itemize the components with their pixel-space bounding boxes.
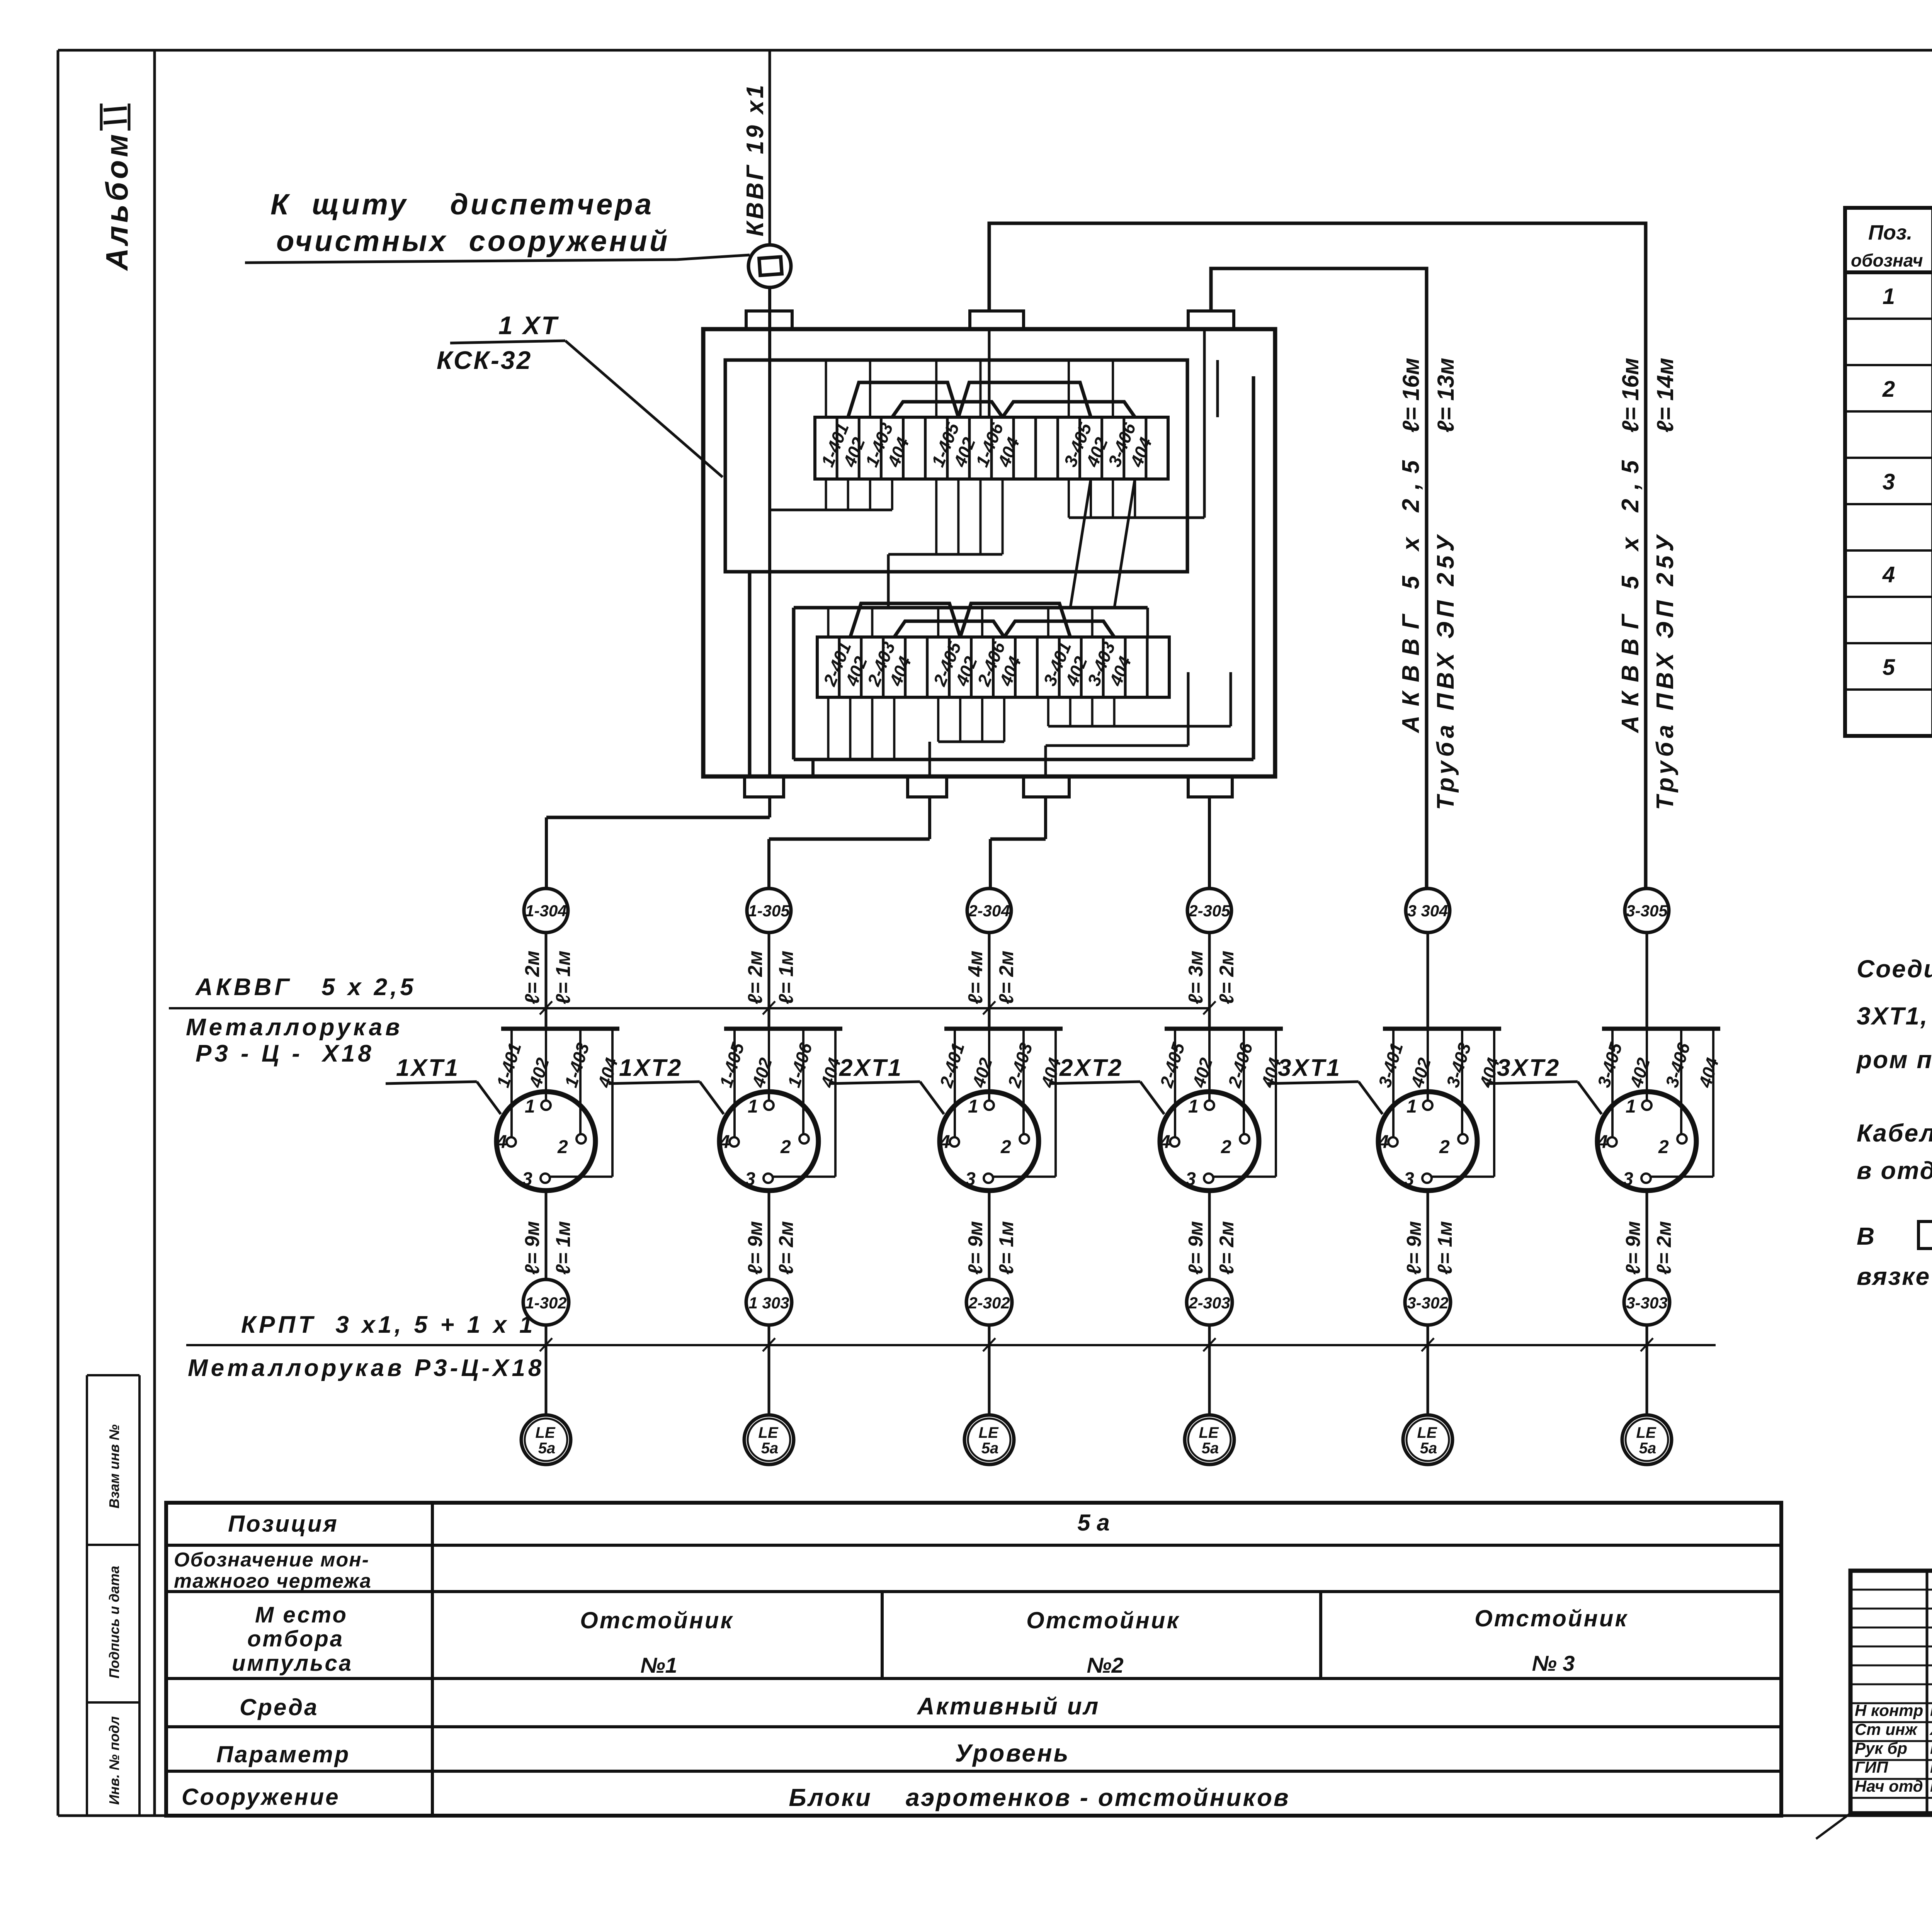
svg-text:3-401: 3-401: [1374, 1040, 1407, 1090]
svg-text:Р3 - Ц - Х18: Р3 - Ц - Х18: [196, 1040, 374, 1067]
svg-text:2-403: 2-403: [1004, 1040, 1037, 1090]
svg-text:2-401: 2-401: [936, 1040, 968, 1090]
svg-text:3: 3: [1185, 1169, 1196, 1189]
svg-text:2-303: 2-303: [1188, 1294, 1230, 1312]
svg-text:2ХТ2: 2ХТ2: [1059, 1055, 1123, 1081]
svg-text:2: 2: [1439, 1137, 1450, 1157]
svg-text:Параметр: Параметр: [216, 1741, 350, 1767]
svg-text:Сооружение: Сооружение: [182, 1784, 340, 1810]
svg-text:1-305: 1-305: [748, 902, 790, 920]
svg-text:1: 1: [1883, 284, 1895, 309]
svg-text:1-304: 1-304: [525, 902, 566, 920]
svg-text:ℓ= 3м: ℓ= 3м: [1185, 951, 1207, 1004]
svg-text:ℓ= 2м: ℓ= 2м: [744, 951, 767, 1004]
svg-text:АКВВГ 5 х 2,5: АКВВГ 5 х 2,5: [1617, 451, 1644, 734]
svg-text:1: 1: [748, 1096, 758, 1117]
svg-text:Взам инв №: Взам инв №: [106, 1424, 122, 1509]
svg-text:Среда: Среда: [240, 1694, 319, 1720]
svg-text:Поз.: Поз.: [1868, 221, 1912, 244]
svg-text:№2: №2: [1087, 1653, 1123, 1677]
svg-text:АКВВГ 5 х 2,5: АКВВГ 5 х 2,5: [195, 974, 417, 1001]
svg-text:3ХТ1: 3ХТ1: [1278, 1055, 1341, 1081]
svg-text:очистных сооружений: очистных сооружений: [276, 225, 670, 258]
svg-text:402: 402: [748, 1055, 776, 1090]
svg-text:Ст инж: Ст инж: [1855, 1720, 1918, 1738]
svg-text:4: 4: [939, 1132, 950, 1152]
svg-text:3ХТ1, 3ХТ2 поставляются в: 3ХТ1, 3ХТ2 поставляются в комплекте с пр…: [1857, 1002, 1932, 1030]
svg-text:1 ХТ: 1 ХТ: [498, 311, 559, 340]
svg-text:2-302: 2-302: [968, 1294, 1010, 1312]
svg-text:3-406: 3-406: [1662, 1040, 1694, 1090]
svg-text:3: 3: [745, 1169, 755, 1189]
svg-text:LЕ: LЕ: [535, 1424, 555, 1441]
svg-text:Металлорукав Р3-Ц-Х18: Металлорукав Р3-Ц-Х18: [188, 1355, 544, 1381]
svg-text:Уровень: Уровень: [955, 1739, 1070, 1767]
svg-text:ℓ= 9м: ℓ= 9м: [964, 1221, 987, 1275]
svg-text:402: 402: [968, 1055, 997, 1090]
svg-text:ℓ= 16м: ℓ= 16м: [1617, 358, 1643, 433]
svg-text:2: 2: [557, 1137, 568, 1157]
svg-text:5а: 5а: [1202, 1440, 1219, 1457]
svg-text:отбора: отбора: [247, 1626, 344, 1651]
svg-text:402: 402: [1626, 1055, 1654, 1090]
svg-text:404: 404: [1695, 1055, 1723, 1090]
svg-text:1-405: 1-405: [716, 1040, 748, 1090]
svg-text:Металлорукав: Металлорукав: [186, 1014, 403, 1041]
svg-text:ℓ= 9м: ℓ= 9м: [1185, 1221, 1207, 1275]
svg-text:Жабачев: Жабачев: [1929, 1720, 1932, 1738]
svg-text:АКВВГ 5 х 2,5: АКВВГ 5 х 2,5: [1398, 451, 1424, 734]
svg-text:1ХТ2: 1ХТ2: [619, 1055, 682, 1081]
svg-text:1: 1: [525, 1096, 535, 1117]
svg-text:2-304: 2-304: [968, 902, 1010, 920]
svg-text:Рук бр: Рук бр: [1855, 1739, 1907, 1757]
svg-text:4: 4: [1597, 1132, 1608, 1152]
svg-text:Н контр: Н контр: [1855, 1701, 1923, 1719]
svg-text:ℓ= 2м: ℓ= 2м: [521, 951, 544, 1004]
svg-text:ℓ= 9м: ℓ= 9м: [1403, 1221, 1425, 1275]
svg-text:3 304: 3 304: [1407, 902, 1448, 920]
svg-text:1ХТ1: 1ХТ1: [396, 1055, 459, 1081]
svg-text:ℓ= 2м: ℓ= 2м: [1653, 1221, 1675, 1275]
svg-text:1-406: 1-406: [784, 1040, 816, 1090]
svg-text:ℓ= 14м: ℓ= 14м: [1652, 358, 1678, 433]
svg-text:4: 4: [1160, 1132, 1170, 1152]
svg-text:ℓ= 1м: ℓ= 1м: [552, 1221, 575, 1275]
svg-text:ℓ= 13м: ℓ= 13м: [1433, 358, 1459, 433]
svg-text:3-302: 3-302: [1407, 1294, 1448, 1312]
svg-text:Подпись и дата: Подпись и дата: [106, 1566, 122, 1678]
svg-text:В: В: [1857, 1222, 1876, 1250]
svg-text:Обозначение мон-: Обозначение мон-: [174, 1549, 369, 1571]
svg-text:Отстойник: Отстойник: [1475, 1605, 1628, 1631]
svg-text:3-403: 3-403: [1442, 1040, 1475, 1090]
svg-text:5а: 5а: [1420, 1440, 1437, 1457]
svg-text:LЕ: LЕ: [1417, 1424, 1437, 1441]
svg-text:2-305: 2-305: [1188, 902, 1230, 920]
svg-text:ℓ= 16м: ℓ= 16м: [1398, 358, 1424, 433]
svg-text:Капитульский: Капитульский: [1930, 1758, 1932, 1776]
svg-text:2: 2: [1000, 1137, 1011, 1157]
svg-text:Отстойник: Отстойник: [1026, 1607, 1180, 1633]
svg-text:Позиция: Позиция: [228, 1511, 338, 1537]
svg-text:М есто: М есто: [255, 1602, 348, 1627]
svg-text:2: 2: [1658, 1137, 1669, 1157]
svg-text:ℓ= 1м: ℓ= 1м: [775, 951, 798, 1004]
svg-text:1: 1: [1188, 1096, 1199, 1117]
svg-text:5а: 5а: [1639, 1440, 1656, 1457]
svg-text:Альбом: Альбом: [100, 131, 134, 271]
svg-text:1: 1: [968, 1096, 978, 1117]
svg-text:LЕ: LЕ: [1636, 1424, 1656, 1441]
svg-text:402: 402: [1189, 1055, 1217, 1090]
svg-text:3-303: 3-303: [1626, 1294, 1667, 1312]
svg-text:Труба ПВХ ЭП 25У: Труба ПВХ ЭП 25У: [1652, 532, 1679, 810]
svg-text:ℓ= 2м: ℓ= 2м: [995, 951, 1018, 1004]
svg-text:в отдельном проекте: в отдельном проекте: [1857, 1157, 1932, 1184]
svg-text:3ХТ2: 3ХТ2: [1497, 1055, 1560, 1081]
svg-text:ром поз. 5: ром поз. 5: [1856, 1046, 1932, 1074]
svg-text:ℓ= 2м: ℓ= 2м: [775, 1221, 798, 1275]
svg-text:Кабель, идущий к щиту дисп: Кабель, идущий к щиту диспетчера, учитыв…: [1857, 1119, 1932, 1147]
svg-text:3: 3: [1404, 1169, 1414, 1189]
svg-text:3: 3: [1883, 469, 1895, 494]
svg-text:1-403: 1-403: [561, 1040, 593, 1090]
svg-text:ℓ= 9м: ℓ= 9м: [1622, 1221, 1645, 1275]
svg-text:ℓ= 9м: ℓ= 9м: [521, 1221, 544, 1275]
svg-text:5: 5: [1883, 655, 1895, 680]
svg-text:5 а: 5 а: [1077, 1510, 1109, 1536]
svg-text:Радюшкин: Радюшкин: [1930, 1739, 1932, 1757]
svg-text:5а: 5а: [981, 1440, 999, 1457]
svg-text:ℓ= 9м: ℓ= 9м: [744, 1221, 767, 1275]
svg-text:1-302: 1-302: [525, 1294, 566, 1312]
svg-text:К щиту диспетчера: К щиту диспетчера: [270, 188, 654, 221]
svg-text:2-405: 2-405: [1156, 1040, 1189, 1090]
svg-text:Нач отд: Нач отд: [1855, 1777, 1923, 1795]
svg-text:Инв. № подл: Инв. № подл: [106, 1716, 122, 1805]
svg-text:КВВГ 19 х1: КВВГ 19 х1: [742, 83, 769, 236]
svg-text:№1: №1: [640, 1653, 677, 1677]
svg-text:1-401: 1-401: [493, 1040, 525, 1090]
svg-text:обознач: обознач: [1851, 250, 1923, 270]
svg-text:4: 4: [496, 1132, 507, 1152]
svg-text:5а: 5а: [761, 1440, 779, 1457]
svg-text:4: 4: [1378, 1132, 1389, 1152]
svg-text:5а: 5а: [538, 1440, 556, 1457]
svg-text:импульса: импульса: [232, 1651, 353, 1676]
svg-text:4: 4: [1882, 562, 1895, 587]
svg-text:вязке проекта: вязке проекта: [1857, 1262, 1932, 1290]
svg-text:Труба ПВХ ЭП 25У: Труба ПВХ ЭП 25У: [1432, 532, 1459, 810]
svg-text:Кильметов: Кильметов: [1930, 1777, 1932, 1795]
svg-text:3: 3: [1623, 1169, 1633, 1189]
svg-text:LЕ: LЕ: [1199, 1424, 1219, 1441]
svg-text:КСК-32: КСК-32: [437, 346, 532, 374]
svg-text:LЕ: LЕ: [978, 1424, 998, 1441]
svg-text:404: 404: [594, 1055, 622, 1090]
svg-text:Активный ил: Активный ил: [917, 1693, 1100, 1720]
svg-text:3: 3: [522, 1169, 532, 1189]
svg-text:2ХТ1: 2ХТ1: [839, 1055, 903, 1081]
svg-text:ℓ= 2м: ℓ= 2м: [1216, 1221, 1238, 1275]
svg-text:3: 3: [965, 1169, 976, 1189]
svg-text:ℓ= 1м: ℓ= 1м: [1434, 1221, 1456, 1275]
svg-text:2-406: 2-406: [1224, 1040, 1257, 1090]
svg-text:402: 402: [1407, 1055, 1435, 1090]
svg-text:LЕ: LЕ: [758, 1424, 778, 1441]
svg-text:КРПТ 3 х1, 5 + 1 х 1: КРПТ 3 х1, 5 + 1 х 1: [241, 1312, 536, 1338]
svg-text:Блоки аэротенков - отстойни: Блоки аэротенков - отстойников: [789, 1784, 1290, 1811]
svg-text:3-405: 3-405: [1594, 1040, 1626, 1090]
svg-text:Соединительные коробки 1ХТ1: Соединительные коробки 1ХТ1, 1ХТ2, 2ХТ1 …: [1857, 955, 1932, 983]
svg-text:№ 3: № 3: [1532, 1651, 1575, 1675]
svg-text:1: 1: [1406, 1096, 1417, 1117]
svg-text:Позднякова: Позднякова: [1930, 1701, 1932, 1719]
svg-text:4: 4: [719, 1132, 730, 1152]
svg-text:Отстойник: Отстойник: [580, 1607, 734, 1633]
svg-text:2: 2: [1882, 377, 1895, 402]
svg-text:1: 1: [1626, 1096, 1636, 1117]
svg-text:2: 2: [1221, 1137, 1231, 1157]
svg-text:3-305: 3-305: [1626, 902, 1668, 920]
svg-text:ℓ= 1м: ℓ= 1м: [552, 951, 575, 1004]
svg-text:ℓ= 2м: ℓ= 2м: [1216, 951, 1238, 1004]
svg-text:402: 402: [525, 1055, 553, 1090]
svg-text:1 303: 1 303: [748, 1294, 789, 1312]
svg-text:ГИП: ГИП: [1855, 1758, 1888, 1776]
svg-text:ℓ= 4м: ℓ= 4м: [964, 951, 987, 1004]
svg-text:2: 2: [780, 1137, 791, 1157]
svg-text:тажного чертежа: тажного чертежа: [174, 1570, 372, 1592]
svg-text:ℓ= 1м: ℓ= 1м: [995, 1221, 1018, 1275]
